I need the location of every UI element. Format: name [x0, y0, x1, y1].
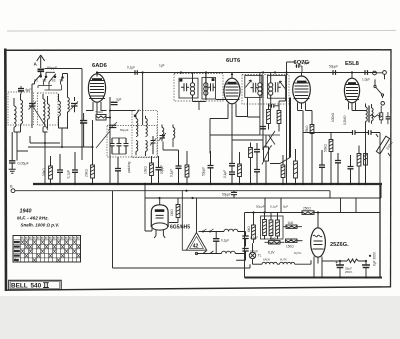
wave band switch S4	[61, 74, 68, 85]
wire sub line	[145, 184, 381, 213]
svg-text:50μμF: 50μμF	[329, 65, 338, 69]
capacitor 0,05uF	[9, 132, 15, 169]
oscillator coil L7b	[136, 141, 138, 156]
resistor x312	[310, 111, 314, 185]
junction dots power	[252, 211, 371, 278]
svg-text:6AD6: 6AD6	[263, 258, 270, 262]
horizontal resistor r1	[283, 225, 302, 228]
choke coil top	[213, 229, 246, 231]
ballast resistor x271	[269, 213, 273, 240]
svg-text:6μF 300V.: 6μF 300V.	[373, 251, 377, 266]
resistor x187	[185, 151, 189, 184]
ballast resistor x253.5	[252, 213, 256, 244]
svg-text:0,1μF: 0,1μF	[270, 205, 278, 209]
aerial coil L2	[21, 94, 23, 132]
svg-text:0,05μF: 0,05μF	[18, 162, 30, 166]
svg-text:6UT6: 6UT6	[226, 58, 241, 64]
power inner box	[261, 216, 284, 239]
cathode bypass cap	[111, 102, 118, 104]
primary trim capacitor	[18, 86, 24, 94]
detector coil L5	[59, 94, 61, 128]
feedback resistor right edge	[380, 106, 383, 124]
diode load resistor x279	[277, 104, 281, 132]
wire magic eye drop	[145, 184, 152, 231]
T2 primary coil	[258, 75, 262, 101]
coupling cap on top line x366	[365, 70, 368, 75]
svg-text:S1: S1	[34, 79, 38, 83]
wire shield to pot	[270, 158, 290, 164]
T1 primary tuning cap	[181, 83, 189, 91]
IF transformer T1 outer box	[174, 74, 223, 102]
svg-text:3μF: 3μF	[116, 98, 122, 102]
svg-text:50μμF: 50μμF	[222, 193, 231, 197]
RF coil L3	[43, 94, 45, 132]
frame left edge	[4, 49, 7, 292]
svg-text:250Ω: 250Ω	[303, 207, 311, 211]
cap under bus x234	[231, 191, 237, 198]
ballast resistor x277.5	[276, 213, 280, 240]
svg-text:25Z6G.: 25Z6G.	[330, 242, 349, 248]
wire power right riser	[379, 184, 381, 278]
ballast resistor x264.5	[263, 213, 267, 240]
PU terminal 1	[373, 71, 377, 75]
oscillator coil box dashed	[107, 126, 157, 158]
wire triangle apex	[196, 198, 198, 233]
wire B line	[15, 191, 330, 198]
tube V4 E5L8	[344, 74, 359, 109]
svg-text:0,1μF: 0,1μF	[67, 170, 71, 179]
wave band switch S1	[35, 74, 42, 84]
wire T1 tops	[193, 73, 271, 79]
wire y132 caps pair	[343, 130, 380, 184]
series resistor on box top	[302, 211, 314, 215]
T2 adjust arrow	[245, 80, 251, 88]
svg-text:0,1μF: 0,1μF	[221, 239, 229, 243]
svg-text:6AD6: 6AD6	[92, 63, 108, 69]
6Q7G grid cap	[296, 64, 303, 72]
padder capacitor bank	[110, 138, 129, 154]
svg-text:20kΩ: 20kΩ	[85, 169, 89, 177]
wire top plate line	[96, 72, 377, 74]
heater chain coil group 2	[277, 260, 311, 264]
6UT6 cathode resistor	[249, 143, 253, 185]
wave band switch S2	[44, 72, 56, 84]
aerial coil L1	[14, 98, 16, 132]
svg-text:1940: 1940	[20, 209, 32, 215]
junction dots sub lines	[144, 183, 194, 199]
wire 6Q7G line	[287, 62, 297, 184]
svg-text:0,5MΩ: 0,5MΩ	[343, 115, 347, 125]
PU caps right pair	[236, 232, 249, 261]
RF coil L4	[48, 96, 50, 128]
IF transformer T2 outer box	[242, 75, 289, 104]
antenna A	[37, 55, 45, 68]
scanner strip bottom	[0, 296, 400, 339]
diagonal link wire	[96, 131, 110, 148]
osc coil L10	[173, 125, 175, 142]
wire rectifier cathode to filter	[318, 213, 340, 262]
wire AVC rails	[163, 98, 286, 150]
frame right edge	[390, 50, 393, 288]
hum resistor zigzag	[370, 115, 382, 117]
wire enclosure left	[112, 191, 114, 268]
RF coil box (dashed)	[38, 93, 59, 125]
svg-text:100kΩ: 100kΩ	[331, 112, 335, 122]
resistor x365.5	[364, 146, 368, 185]
svg-text:6UT6: 6UT6	[280, 258, 287, 262]
wire 6AD6 pin leads	[86, 107, 303, 184]
svg-text:TL: TL	[258, 254, 262, 258]
tone switch contacts top	[202, 231, 211, 233]
diagonal resistor 500k	[376, 134, 390, 156]
terminal B	[11, 189, 15, 193]
capacitor x338	[335, 153, 341, 184]
ground bus	[33, 183, 382, 185]
svg-text:150Ω: 150Ω	[286, 245, 294, 249]
capacitor x350.5	[348, 155, 354, 184]
svg-text:1MΩ: 1MΩ	[170, 209, 174, 216]
svg-text:6μF: 6μF	[26, 88, 32, 92]
PU coupling caps mid	[213, 232, 219, 254]
svg-text:42: 42	[193, 244, 199, 250]
output transformer secondary	[372, 104, 374, 124]
6AD6 bias resistor horizontal	[96, 115, 110, 121]
resistor x295.5	[294, 149, 298, 184]
capacitor x322	[319, 150, 325, 184]
aerial coil box (dashed)	[8, 92, 34, 125]
svg-text:1,0μF: 1,0μF	[362, 78, 370, 82]
svg-text:50μμF: 50μμF	[202, 167, 206, 176]
diode load resistor x268.5	[267, 104, 271, 130]
title numeral II glyph	[43, 283, 49, 288]
capacitor pair x257	[254, 143, 260, 184]
wire pu top	[182, 190, 186, 250]
svg-text:540: 540	[31, 283, 42, 290]
oscillator trimmer	[150, 136, 156, 154]
output transformer primary	[366, 104, 368, 122]
valve data table	[13, 236, 81, 263]
svg-text:S3: S3	[52, 79, 56, 83]
frame bottom edge	[6, 287, 391, 290]
detector cap x263	[260, 121, 266, 135]
horizontal resistor r3	[286, 239, 303, 242]
title box inner line	[10, 282, 60, 289]
resistor 10k x151	[150, 156, 154, 184]
T1 adjust mark 2	[212, 78, 215, 81]
detector coil L6	[68, 85, 70, 129]
power unit bottom bus	[245, 277, 383, 279]
wire antenna feed	[45, 69, 83, 161]
svg-text:E5L8: E5L8	[345, 61, 360, 67]
T2 primary can	[245, 75, 262, 97]
cap right edge	[386, 112, 391, 124]
wire T1 feed	[205, 73, 207, 101]
speaker terminal	[381, 102, 385, 106]
shielded lead (thick)	[289, 98, 291, 158]
oscillator coil L8b	[146, 141, 148, 157]
junction dots bus	[49, 183, 366, 185]
resistor R1 50k	[49, 156, 53, 184]
tube V6 rectifier 25Z6G	[311, 213, 326, 278]
tube V2 6UT6	[224, 74, 240, 110]
variable cap below cathode	[108, 122, 117, 131]
capacitor below box x118	[115, 157, 121, 184]
T1 secondary can	[202, 78, 216, 100]
svg-text:6,3V: 6,3V	[268, 251, 275, 255]
capacitor C 0,1 x60	[57, 154, 63, 184]
coupling cap on top line x136	[135, 70, 137, 74]
wire switch stubs	[38, 84, 62, 90]
oscillator coil L8a	[146, 116, 148, 137]
junction dots top line	[44, 71, 353, 148]
tube V5 magic eye 6G5	[151, 198, 168, 238]
T1 primary can	[179, 78, 198, 98]
svg-text:6G5/6H5: 6G5/6H5	[170, 225, 190, 231]
capacitor x178.5	[176, 150, 182, 184]
wire E5L8 plate to transformer	[349, 73, 366, 185]
resistor R2 20k	[91, 147, 95, 184]
gang link wire (diagonal)	[32, 105, 48, 130]
AVC diagonal wires	[260, 131, 280, 148]
tube V3 6Q7G	[293, 72, 311, 109]
svg-text:0,1μF: 0,1μF	[127, 66, 135, 70]
frame top edge	[5, 49, 392, 52]
PU terminal 2	[383, 71, 387, 75]
resistor x359	[357, 146, 361, 185]
faint fold line top	[7, 29, 396, 32]
transformer core	[368, 106, 369, 123]
svg-text:50μμF: 50μμF	[47, 66, 58, 70]
junction dot x303	[302, 183, 304, 185]
svg-text:50kΩ: 50kΩ	[324, 144, 328, 152]
capacitor pair x232	[229, 152, 235, 184]
tuning capacitor C1	[29, 101, 37, 110]
coupling caps horizontal pair	[269, 104, 279, 108]
svg-text:1μF: 1μF	[159, 64, 165, 68]
wire terminals	[377, 73, 385, 80]
osc switch contact	[134, 110, 139, 117]
svg-text:5μF: 5μF	[283, 205, 288, 209]
svg-text:S2: S2	[43, 79, 47, 83]
wire enclosure bottom	[113, 264, 251, 268]
wire screen feed	[262, 75, 264, 150]
electrolytic cap 1	[336, 261, 345, 278]
osc coupling coil L9	[162, 125, 164, 142]
T2 primary tuning cap	[251, 83, 258, 93]
svg-text:1kΩ: 1kΩ	[288, 221, 294, 225]
tube V1 6AD6	[88, 73, 105, 109]
coupling cap on top line x334	[333, 70, 336, 75]
power unit box	[245, 213, 381, 278]
svg-text:BELL: BELL	[11, 283, 28, 290]
svg-text:1μF: 1μF	[378, 112, 382, 118]
table header marks	[22, 237, 79, 239]
switch wire to coils	[32, 84, 35, 128]
tiny value labels row	[256, 205, 288, 209]
PU line top	[199, 231, 213, 233]
svg-text:6kΩ: 6kΩ	[247, 226, 251, 232]
svg-text:0,1μF: 0,1μF	[170, 169, 174, 177]
svg-text:50μμF: 50μμF	[120, 128, 129, 132]
osc section trimmer with arrow	[159, 133, 167, 141]
capacitor x158.5	[156, 156, 162, 184]
svg-text:50kΩ: 50kΩ	[42, 168, 46, 176]
pilot lamp	[249, 243, 255, 264]
title box outer	[9, 280, 62, 289]
grid coupling capacitor	[80, 113, 87, 147]
magic eye series resistor	[169, 198, 180, 223]
resistor x283	[281, 155, 285, 184]
T2 secondary can	[268, 75, 286, 98]
choke coil bottom	[195, 251, 244, 255]
T2 secondary coil	[269, 75, 273, 100]
wire grid drop 6AD6	[142, 73, 144, 125]
wire frontend bottoms	[14, 120, 93, 184]
electrolytic cap 2	[362, 261, 370, 278]
T1 secondary coil	[204, 78, 208, 100]
svg-text:10kΩ: 10kΩ	[144, 166, 148, 174]
horizontal resistor r2	[265, 241, 285, 244]
table row labels	[14, 241, 20, 261]
svg-text:50μμF: 50μμF	[160, 165, 164, 174]
wire 6AD6 cathode drop	[110, 97, 135, 184]
wire 6Q7G bottoms	[298, 108, 344, 133]
oscillator inner box dashed	[132, 111, 158, 158]
svg-text:50μμF: 50μμF	[301, 61, 310, 65]
T1 primary coil	[190, 78, 194, 98]
T2 secondary tuning cap	[275, 82, 280, 92]
antenna series capacitor	[38, 69, 45, 76]
svg-text:padding: padding	[127, 161, 131, 173]
svg-text:250V.: 250V.	[345, 270, 353, 274]
svg-text:25kΩ: 25kΩ	[305, 125, 309, 133]
svg-text:5kΩ: 5kΩ	[270, 237, 276, 241]
table X marks	[15, 241, 80, 262]
svg-text:S4: S4	[60, 79, 64, 83]
heater chain coil group 1	[253, 262, 278, 264]
capacitor x75	[72, 152, 78, 184]
svg-text:50μμF: 50μμF	[256, 205, 265, 209]
svg-text:Snelh. 1000 Ω p.V.: Snelh. 1000 Ω p.V.	[21, 223, 60, 228]
T1 secondary tuning cap	[208, 83, 216, 91]
filter resistor zigzag	[340, 259, 366, 263]
pickup triangle outer	[186, 233, 206, 251]
svg-text:M.F. - 462 kHz.: M.F. - 462 kHz.	[17, 216, 49, 221]
resistor 50k x331	[329, 133, 333, 185]
wave band switch S3	[49, 74, 56, 85]
resistor x239.5	[238, 152, 242, 184]
svg-text:0,1μF: 0,1μF	[223, 170, 227, 178]
PU switch	[374, 79, 384, 98]
oscillator coil L7a	[136, 116, 138, 137]
ground symbol	[9, 169, 16, 173]
volume potentiometer	[262, 135, 272, 184]
tuning capacitor C2	[71, 97, 79, 112]
wire 6UT6 bottoms	[210, 97, 248, 153]
svg-text:6Q7G: 6Q7G	[294, 251, 301, 255]
capacitor x210.5	[208, 151, 214, 184]
T1 adjust mark	[180, 79, 183, 82]
T2 adjust arrow 2	[280, 81, 286, 89]
